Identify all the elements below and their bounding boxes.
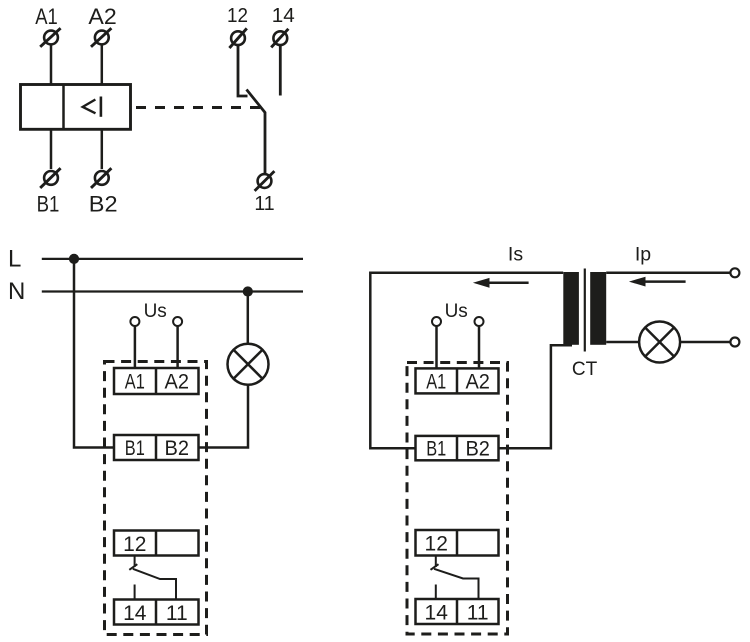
terminal B1 (circle with slash) [40,168,60,188]
wire device box to B2 [101,129,104,169]
wire Us right to A2 [176,326,179,368]
Us terminal left circle (right circuit) [432,317,441,326]
wire L to B1 [74,259,114,448]
label A1 (top terminal) [35,4,58,29]
svg-text:11: 11 [254,192,274,215]
terminal box 14 11 (left) [114,600,199,625]
svg-text:Is: Is [508,244,523,266]
wire from terminal 12 with contact foot [238,45,248,96]
terminal A2 (circle with slash) [91,28,111,47]
label Ip [635,244,651,266]
label B1 in box (right) [426,438,446,461]
label Us (right) [445,301,468,322]
svg-text:CT: CT [572,359,598,380]
dashed mechanical link [136,106,260,109]
label B2 in box (left) [165,437,190,460]
terminal box B1 B2 (right) [416,436,499,460]
terminal circle primary top right [730,268,739,277]
svg-text:A1: A1 [426,371,446,394]
label Us (left) [144,301,167,322]
wire N to lamp [247,291,250,343]
label CT [572,359,598,380]
svg-text:B2: B2 [165,437,190,460]
terminal box B1 B2 (left) [114,435,199,460]
label A1 in box (right) [426,371,446,394]
wire A1 to device box [50,45,53,85]
svg-text:Ip: Ip [635,244,651,266]
contact arm 12-11 (right) [434,569,479,599]
wire Us right to A2 (right circuit) [478,326,481,368]
wire secondary top loop [370,273,563,449]
terminal box A1 A2 (right) [416,368,499,393]
terminal 14 (circle with slash) [271,29,288,48]
svg-text:A2: A2 [88,4,116,29]
wire lamp to B2 [199,385,249,448]
junction dot on L [69,254,79,264]
svg-text:14: 14 [425,601,449,624]
arrow Is (current direction) [473,278,529,288]
junction dot on N [243,286,253,296]
terminal box 12 (right) [416,530,499,556]
contact stub to 14 (right) [435,585,437,600]
label A1 in box (left) [125,370,145,393]
svg-text:B1: B1 [426,438,446,461]
wire from terminal 14 [279,45,282,95]
label Is [508,244,523,266]
svg-text:11: 11 [166,602,188,625]
svg-text:14: 14 [123,602,147,625]
svg-text:A1: A1 [125,370,145,393]
svg-text:A1: A1 [35,4,58,29]
Us terminal right circle [173,317,182,326]
label 12 in box (left) [123,533,146,556]
label A2 (top terminal) [88,4,116,29]
svg-text:Us: Us [445,301,468,322]
svg-text:L: L [8,246,21,273]
label 14 (contact terminal) [272,4,295,27]
CT core lines [584,269,586,352]
label A2 in box (right) [465,371,490,394]
contact stub to 14 (left) [134,585,136,600]
label 12 in box (right) [425,533,448,556]
wire L line [42,258,303,260]
terminal 11 (circle with slash) [255,171,275,191]
label 12 (contact terminal) [227,4,248,27]
svg-text:A2: A2 [465,371,490,394]
contact tick (left) [129,564,137,570]
label 11 in box (right) [467,601,489,624]
label 11 (contact terminal) [254,192,274,215]
lamp E2 (circle with X) [639,322,680,363]
svg-text:B2: B2 [465,438,490,461]
label N (neutral) [8,278,25,305]
svg-text:A2: A2 [165,370,190,393]
CT primary winding bar [590,272,606,345]
label B2 (bottom terminal) [89,192,118,217]
wire A2 to device box [101,45,104,85]
contact stub from 12 (left) [134,556,136,568]
label 11 in box (left) [166,602,188,625]
CT secondary winding bar [563,272,579,345]
Us terminal left circle [130,317,139,326]
svg-text:12: 12 [425,533,448,556]
label A2 in box (left) [165,370,190,393]
wire primary top [606,272,730,275]
svg-text:B1: B1 [125,437,145,460]
svg-text:B2: B2 [89,192,118,217]
contact tick (right) [431,564,439,570]
svg-text:N: N [8,278,25,305]
svg-text:11: 11 [467,601,489,624]
arrow Ip (current direction) [629,277,686,287]
dashed device enclosure (right) [407,363,508,635]
label L (phase) [8,246,21,273]
wire CT primary bottom to lamp [606,341,639,344]
terminal box A1 A2 (left) [114,368,199,394]
wire device box to B1 [50,129,53,169]
label 14 in box (right) [425,601,449,624]
svg-text:14: 14 [272,4,295,27]
label 14 in box (left) [123,602,147,625]
terminal box 14 11 (right) [416,599,499,624]
contact moving arm to terminal 11 [247,90,266,175]
terminal box 12 (left) [114,531,199,556]
label B1 in box (left) [125,437,145,460]
wire lamp to terminal right [680,341,730,344]
contact stub from 12 (right) [435,556,437,568]
wire N line [42,290,303,292]
svg-text:12: 12 [123,533,146,556]
wire Us left to A1 (right circuit) [435,326,438,368]
wire Us left to A1 [134,326,137,368]
svg-text:12: 12 [227,4,248,27]
wire CT secondary bottom to B2 [499,345,573,448]
svg-text:B1: B1 [37,192,60,217]
contact arm 12-11 (left) [133,569,176,600]
Us terminal right circle (right circuit) [475,317,484,326]
label B2 in box (right) [465,438,490,461]
terminal 12 (circle with slash) [229,28,246,48]
dashed device enclosure (left) [105,362,207,635]
svg-text:Us: Us [144,301,167,322]
label B1 (bottom terminal) [37,192,60,217]
symbol <I (undercurrent) [83,97,101,117]
terminal A1 (circle with slash) [40,28,60,47]
terminal B2 (circle with slash) [91,168,111,188]
lamp E1 (circle with X) [228,344,269,385]
device box (undercurrent relay body) [21,85,131,130]
terminal circle primary bottom right [730,338,739,347]
